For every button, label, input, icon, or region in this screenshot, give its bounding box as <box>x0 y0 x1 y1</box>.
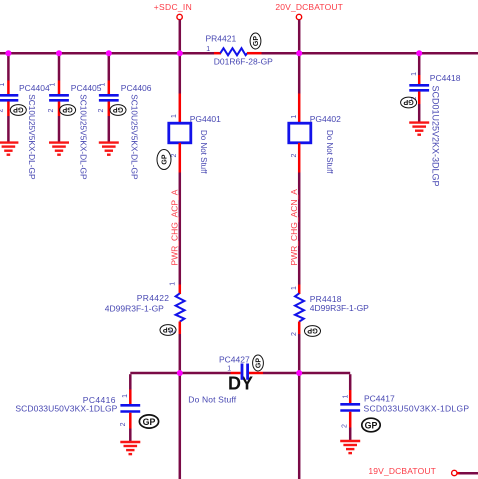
capacitor PC4405 <box>49 94 69 97</box>
resistor PR4418 <box>295 293 304 321</box>
wire pin stub PG4401 pin1 <box>179 94 182 124</box>
wire bottom horizontal net right <box>263 372 350 375</box>
wire pin stub PG4402 pin2 <box>298 143 301 173</box>
svg-text:1: 1 <box>291 286 298 290</box>
ground PC4404 <box>0 143 18 155</box>
pad PG4402 <box>289 123 311 143</box>
capacitor PC4404 <box>0 94 18 97</box>
GP flag PC4418 <box>401 97 417 108</box>
wire pin stub left of PR4421 <box>214 52 221 55</box>
svg-text:GP: GP <box>62 105 73 114</box>
wire 19V_DCBATOUT stub <box>457 472 460 475</box>
wire capacitor PC4417 to ground <box>349 428 352 441</box>
ground PC4416 <box>120 442 140 454</box>
svg-text:PR4422: PR4422 <box>137 293 170 303</box>
wire pin stub PR4422 pin1 <box>179 285 182 295</box>
svg-text:2: 2 <box>342 424 349 428</box>
svg-text:PG4402: PG4402 <box>310 114 341 124</box>
svg-text:PC4418: PC4418 <box>430 73 461 83</box>
svg-text:PC4406: PC4406 <box>121 83 152 93</box>
capacitor PC4417 <box>340 403 360 406</box>
svg-text:1: 1 <box>122 394 129 398</box>
wire pin stub PC4427 pin1 <box>231 372 241 375</box>
GP flag PR4422 <box>160 325 176 336</box>
svg-text:Do Not Stuff: Do Not Stuff <box>188 395 236 405</box>
wire pin stub right of PR4421 <box>247 52 262 55</box>
svg-text:GP: GP <box>163 325 174 334</box>
capacitor PC4418 <box>409 84 429 87</box>
svg-text:PC4427: PC4427 <box>219 354 250 364</box>
GP flag PC4404 <box>10 105 26 116</box>
wire bottom horizontal net left <box>130 372 230 375</box>
ground PC4418 <box>409 123 429 135</box>
svg-text:SC10U25V5KX-DL-GP: SC10U25V5KX-DL-GP <box>130 94 140 180</box>
resistor PR4422 <box>176 293 185 321</box>
GP flag PC4427 <box>253 355 264 371</box>
svg-text:GP: GP <box>403 98 414 107</box>
svg-text:GP: GP <box>162 154 169 164</box>
svg-text:PG4401: PG4401 <box>190 114 221 124</box>
wire main horizontal bus right segment <box>262 52 478 55</box>
GP flag PC4405 <box>60 105 76 116</box>
svg-text:1: 1 <box>169 282 176 286</box>
GP flag PC4406 <box>110 105 126 116</box>
svg-text:19V_DCBATOUT: 19V_DCBATOUT <box>368 466 436 476</box>
resistor PR4421 <box>220 48 247 55</box>
GP flag PR4418 <box>305 326 321 337</box>
port 19V_DCBATOUT <box>452 470 457 475</box>
wire +SDC_IN to bus <box>179 20 182 94</box>
GP flag PR4421 <box>250 33 261 49</box>
svg-text:SC10U25V5KX-DL-GP: SC10U25V5KX-DL-GP <box>78 94 88 180</box>
capacitor PC4406 <box>99 94 119 97</box>
svg-text:DY: DY <box>228 374 253 394</box>
wire net PWR_CHG_ACP_A upper <box>179 173 182 285</box>
wire pin stub PG4401 pin2 <box>179 143 182 173</box>
svg-text:SC10U25V5KX-DL-GP: SC10U25V5KX-DL-GP <box>27 94 37 180</box>
wire pin stub PR4422 pin2 <box>179 322 182 335</box>
svg-text:GP: GP <box>365 420 378 430</box>
svg-text:Do Not Stuff: Do Not Stuff <box>325 130 334 174</box>
svg-text:GP: GP <box>13 105 24 114</box>
svg-text:D01R6F-28-GP: D01R6F-28-GP <box>214 57 273 67</box>
GP flag PC4416 <box>139 415 158 428</box>
svg-text:PWR_CHG_ACP_A: PWR_CHG_ACP_A <box>169 189 179 265</box>
svg-text:2: 2 <box>48 109 55 113</box>
svg-text:SCD033U50V3KX-1DLGP: SCD033U50V3KX-1DLGP <box>15 404 117 414</box>
svg-text:2: 2 <box>0 109 4 113</box>
port +SDC_IN <box>177 14 182 19</box>
svg-text:2: 2 <box>171 154 178 158</box>
wire net down to bottom junction left <box>179 334 182 479</box>
wire net down to bottom junction right <box>298 334 301 479</box>
wire capacitor PC4416 to ground <box>129 429 132 442</box>
svg-text:PR4421: PR4421 <box>206 34 237 44</box>
pad PG4401 <box>169 123 191 143</box>
svg-text:GP: GP <box>256 358 263 368</box>
wire capacitor PC4405 to ground <box>58 116 61 142</box>
svg-text:1: 1 <box>0 83 6 87</box>
capacitor PC4416 <box>120 404 140 407</box>
ground PC4405 <box>49 143 69 155</box>
node junction dots <box>5 50 422 376</box>
svg-text:4D99R3F-1-GP: 4D99R3F-1-GP <box>105 303 164 313</box>
wire capacitor PC4404 to ground <box>7 116 10 142</box>
wire 20V_DCBATOUT to bus <box>298 20 301 94</box>
svg-text:+SDC_IN: +SDC_IN <box>154 2 192 12</box>
svg-text:1: 1 <box>342 395 349 399</box>
wire capacitor PC4418 branch top <box>418 54 421 75</box>
port 20V_DCBATOUT <box>296 14 301 19</box>
wire capacitor PC4404 branch top <box>7 54 10 81</box>
svg-text:Do Not Stuff: Do Not Stuff <box>199 130 208 174</box>
GP flag PG4401 <box>157 150 171 170</box>
wire capacitor PC4405 branch top <box>58 54 61 81</box>
GP flag PC4417 <box>362 418 380 432</box>
svg-text:1: 1 <box>411 72 418 76</box>
capacitor PC4427 <box>241 364 244 380</box>
ground PC4406 <box>99 143 119 155</box>
wire capacitor PC4416 branch <box>129 374 132 389</box>
svg-text:1: 1 <box>171 114 178 118</box>
svg-text:1: 1 <box>291 115 298 119</box>
svg-text:2: 2 <box>120 422 127 426</box>
wire main horizontal bus left segment <box>0 52 214 55</box>
wire pin stub PC4427 pin2 <box>249 372 263 375</box>
ground PC4417 <box>340 441 360 453</box>
wire pin stub PR4418 pin2 <box>298 322 301 335</box>
wire capacitor PC4406 branch top <box>108 54 111 81</box>
wire capacitor PC4406 to ground <box>108 116 111 142</box>
svg-text:1: 1 <box>99 83 106 87</box>
svg-text:1: 1 <box>227 366 231 373</box>
svg-text:SCD033U50V3KX-1DLGP: SCD033U50V3KX-1DLGP <box>364 403 470 413</box>
svg-text:SCD01U25V2KX-3DLGP: SCD01U25V2KX-3DLGP <box>431 86 441 187</box>
wire capacitor PC4417 branch <box>349 374 352 390</box>
svg-text:2: 2 <box>291 332 298 336</box>
wire capacitor PC4418 to ground <box>418 104 421 122</box>
svg-text:GP: GP <box>253 36 260 46</box>
svg-text:GP: GP <box>113 105 124 114</box>
svg-text:20V_DCBATOUT: 20V_DCBATOUT <box>275 2 343 12</box>
svg-text:2: 2 <box>291 154 298 158</box>
svg-text:GP: GP <box>307 326 318 335</box>
svg-text:PC4404: PC4404 <box>19 83 50 93</box>
svg-text:PC4405: PC4405 <box>71 83 102 93</box>
svg-text:GP: GP <box>143 417 156 427</box>
svg-text:2: 2 <box>98 109 105 113</box>
svg-text:PWR_CHG_ACN_A: PWR_CHG_ACN_A <box>289 189 299 266</box>
svg-text:1: 1 <box>206 46 210 53</box>
wire net PWR_CHG_ACN_A upper <box>298 173 301 285</box>
svg-text:PC4417: PC4417 <box>364 393 395 403</box>
svg-text:4D99R3F-1-GP: 4D99R3F-1-GP <box>310 303 369 313</box>
wire pin stub PG4402 pin1 <box>298 94 301 124</box>
svg-text:1: 1 <box>50 83 57 87</box>
wire pin stub PR4418 pin1 <box>298 285 301 295</box>
